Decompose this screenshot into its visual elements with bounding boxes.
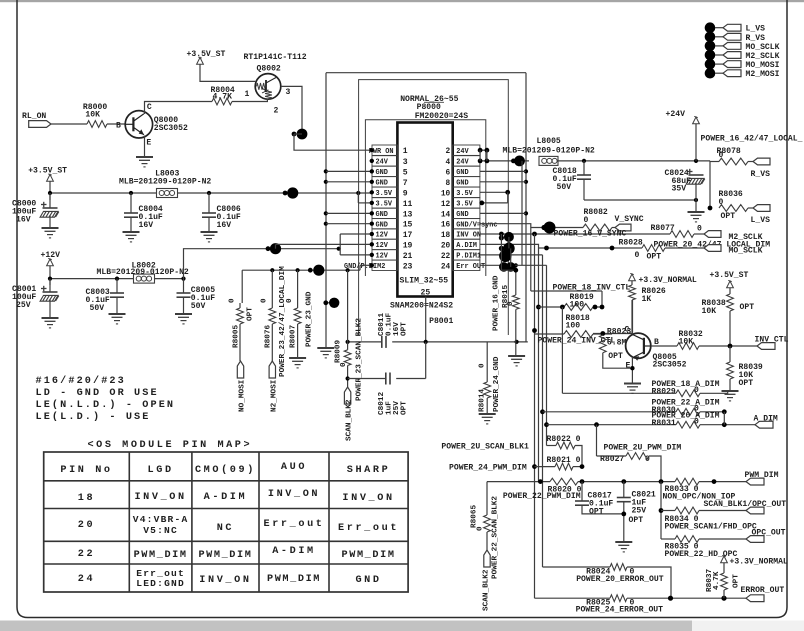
pin 17 label box (12V): [370, 229, 398, 240]
svg-text:R8065: R8065: [471, 505, 479, 528]
note LD - GND OR USE: [36, 388, 159, 399]
svg-text:R8027: R8027: [600, 455, 624, 464]
resistor R8082 0: [583, 208, 615, 231]
resistor R8035 0: [661, 529, 786, 560]
pin 14 label box (GND): [453, 208, 480, 219]
wire 12V rail: [50, 266, 184, 285]
flag PWM_DIM: [745, 471, 779, 485]
wire PWM_DIM main: [487, 479, 675, 484]
svg-text:Q8002: Q8002: [257, 65, 281, 74]
svg-text:10K: 10K: [702, 307, 717, 316]
resistor R8024 0: [576, 564, 671, 599]
wire R8000 to Q8000 base: [107, 123, 125, 125]
ground below Q8005: [624, 384, 641, 394]
wire R8009 top: [347, 270, 349, 350]
svg-text:SLIM_32~55: SLIM_32~55: [400, 277, 449, 286]
svg-text:MO_MOSI: MO_MOSI: [746, 61, 780, 70]
svg-text:0: 0: [697, 225, 702, 234]
ground below R8014: [479, 414, 496, 424]
pin number 16: [441, 222, 451, 230]
svg-text:0: 0: [478, 363, 486, 368]
svg-text:3.5V: 3.5V: [456, 190, 473, 198]
wire pin16 GND/V-sync: [480, 224, 531, 228]
svg-text:POWER_24_ERROR_OUT: POWER_24_ERROR_OUT: [576, 606, 664, 615]
resistor R8026 1K: [629, 281, 666, 334]
pin 8 label box (GND): [453, 177, 480, 188]
resistor R8029 0: [652, 380, 728, 397]
transistor Q8000 2SC3052: [125, 111, 152, 138]
wire bundle V5 pin24->R8022 row: [544, 265, 549, 445]
svg-text:35V: 35V: [672, 185, 687, 194]
pin number 1: [403, 147, 408, 156]
svg-text:16V: 16V: [16, 216, 31, 225]
svg-text:POWER_16_GND: POWER_16_GND: [493, 275, 501, 331]
svg-text:10K: 10K: [85, 111, 100, 120]
svg-text:POWER_23_GND: POWER_23_GND: [306, 291, 314, 347]
pin number 10: [441, 190, 451, 198]
svg-text:2: 2: [446, 148, 451, 156]
capacitor C8001 100uF electrolytic: [12, 279, 59, 318]
svg-text:50V: 50V: [90, 304, 105, 313]
svg-text:10: 10: [441, 190, 451, 198]
ground below C8000: [42, 228, 59, 238]
resistor R8032 10K: [677, 330, 757, 349]
resistor R8021 0: [547, 456, 585, 470]
table row pin 22: [78, 546, 396, 561]
inductor L8002: [97, 261, 189, 283]
svg-text:12V: 12V: [376, 232, 389, 240]
svg-text:20: 20: [78, 520, 95, 531]
wire V_SYNC net: [531, 222, 583, 234]
wire R8005 to flag: [239, 324, 241, 361]
flag SCAN_BLK2 (bottom): [483, 550, 491, 611]
wire +3.5V_ST to Q8002 pin1: [200, 64, 255, 81]
svg-text:POWER_16_V_SYNC: POWER_16_V_SYNC: [554, 230, 627, 239]
svg-text:12V: 12V: [376, 242, 389, 250]
pin number 13: [403, 210, 413, 219]
node +3.5V_ST (R8038): [710, 271, 749, 288]
svg-text:MLB=201209-0120P-N2: MLB=201209-0120P-N2: [119, 178, 211, 187]
pin 20 label box (A.DIM): [453, 239, 480, 250]
wire pin25 drop: [425, 297, 427, 342]
flag ERROR_OUT: [741, 586, 785, 602]
svg-text:MO_SCLK: MO_SCLK: [729, 247, 763, 256]
svg-text:POWER_22_SCAN_BLK2: POWER_22_SCAN_BLK2: [492, 496, 500, 579]
wire Q8000 emitter: [144, 136, 146, 158]
svg-text:0: 0: [229, 298, 237, 303]
pin 19 label box (12V): [370, 239, 398, 250]
resistor R8018 100: [535, 314, 613, 337]
svg-text:R8077: R8077: [651, 224, 675, 233]
wire SCAN_BLK1/OPC net: [659, 482, 787, 539]
module connection dot+flag L_VS: [705, 22, 765, 33]
label FM20020=24S: [415, 112, 469, 121]
wire R8065 to flag: [486, 532, 488, 550]
svg-text:V5:NC: V5:NC: [143, 525, 178, 536]
pin 25 number: [421, 289, 431, 298]
ground below C8006: [201, 232, 218, 242]
wire MO_SCLK net: [539, 246, 643, 251]
svg-text:L_VS: L_VS: [746, 25, 766, 34]
svg-text:POWER_24_PWM_DIM: POWER_24_PWM_DIM: [449, 464, 527, 473]
svg-text:SCAN_BLK2: SCAN_BLK2: [346, 399, 354, 441]
node +24V: [666, 110, 700, 161]
svg-text:50V: 50V: [191, 302, 206, 311]
top window edge bar: [0, 0, 804, 2]
pin number 21: [403, 252, 413, 261]
resistor R8004 4.7K: [211, 86, 235, 105]
wire pin2 24V stub: [478, 148, 490, 153]
wire pin15 GND: [326, 222, 374, 226]
svg-text:PWM_DIM: PWM_DIM: [198, 550, 252, 561]
svg-text:MLB=201209-0120P-N2: MLB=201209-0120P-N2: [503, 147, 595, 156]
svg-text:18: 18: [441, 232, 451, 240]
svg-text:12V: 12V: [376, 253, 389, 261]
wire R8024 net: [543, 566, 611, 568]
svg-text:OPT: OPT: [247, 307, 255, 321]
wire net C8012 horizontal: [348, 342, 426, 379]
flag R_VS: [751, 158, 771, 179]
wire pin2 bundle: [521, 161, 523, 265]
pin number 6: [446, 169, 451, 177]
wire down to R8076: [271, 270, 273, 308]
svg-text:PWM_DIM: PWM_DIM: [267, 574, 321, 585]
svg-text:POWER_24_GND: POWER_24_GND: [493, 356, 501, 412]
svg-text:GND: GND: [456, 179, 468, 187]
resistor R8038 10K OPT: [702, 288, 755, 346]
resistor R8015 0: [502, 285, 519, 310]
wire pin5 GND: [326, 169, 374, 173]
ground below C8024: [688, 212, 705, 222]
svg-text:4: 4: [446, 159, 451, 167]
pin 21 label box (12V): [370, 250, 398, 261]
svg-text:POWER_22_PWM_DIM: POWER_22_PWM_DIM: [503, 492, 581, 501]
outer box NORMAL_26~55 group: [359, 80, 509, 335]
module connection dot+flag MO_MOSI: [705, 59, 780, 70]
svg-text:21: 21: [403, 252, 413, 261]
ground below C8021: [615, 542, 632, 552]
bottom scrollbar track: [692, 621, 804, 631]
svg-text:16V: 16V: [139, 221, 154, 230]
wire R8009 to C8012 row: [346, 366, 350, 388]
pin 13 label box (GND): [370, 208, 398, 219]
svg-text:25: 25: [421, 289, 431, 298]
svg-text:SHARP: SHARP: [347, 465, 391, 476]
resistor R8025 0: [576, 595, 746, 615]
svg-text:18: 18: [78, 493, 95, 504]
net label POWER_24_GND: [493, 356, 501, 412]
pin 11 label box (3.5V): [370, 198, 398, 209]
wire R8031 net: [547, 422, 677, 427]
svg-text:LED:GND: LED:GND: [136, 578, 185, 589]
wire down to R8007: [297, 270, 299, 308]
svg-text:NC: NC: [217, 523, 234, 534]
svg-text:P8000: P8000: [417, 103, 441, 112]
svg-text:1K: 1K: [642, 295, 652, 304]
pin number 1 of Q8002: [245, 90, 250, 99]
svg-text:R8022 0: R8022 0: [547, 435, 581, 444]
wire pin11 3.5V: [358, 201, 374, 205]
pin 4 label box (24V): [453, 156, 480, 167]
svg-text:24: 24: [441, 263, 451, 271]
svg-text:R8029: R8029: [652, 388, 676, 397]
svg-text:14: 14: [441, 211, 451, 219]
svg-text:POWER_18_INV_CTL: POWER_18_INV_CTL: [553, 284, 631, 293]
pin number 2: [446, 148, 451, 156]
svg-text:GND: GND: [376, 211, 388, 219]
connector P8000 body: [397, 123, 452, 297]
wire R8021 net: [449, 464, 555, 473]
svg-text:17: 17: [403, 231, 413, 240]
wire R8022 net: [441, 443, 556, 452]
svg-text:OPT: OPT: [721, 212, 736, 221]
pin number 5: [403, 168, 408, 177]
svg-text:6: 6: [446, 169, 451, 177]
wire pin24 Err_OUT: [480, 262, 547, 272]
svg-text:OPT: OPT: [740, 303, 755, 312]
net label POWER_20_42/47 LOCAL_DIM: [654, 241, 771, 250]
svg-text:C: C: [625, 326, 630, 335]
junction dots on 3.5V rail: [48, 187, 361, 198]
resistor R8027 0: [626, 453, 661, 482]
flag M2_SCLK: [704, 231, 763, 242]
resistor R8005 0 OPT: [229, 298, 255, 348]
flag RL_ON: [22, 112, 51, 127]
svg-text:POWER_20_ERROR_OUT: POWER_20_ERROR_OUT: [576, 575, 664, 584]
svg-text:19: 19: [403, 241, 413, 250]
ground at left GND bus: [317, 348, 334, 358]
svg-text:0: 0: [694, 418, 699, 427]
svg-text:10K: 10K: [679, 338, 694, 347]
svg-text:+3.3V_NORMAL: +3.3V_NORMAL: [730, 558, 788, 567]
svg-text:E: E: [626, 362, 631, 371]
svg-text:POWER_16_42/47_LOCAL_: POWER_16_42/47_LOCAL_: [701, 135, 803, 144]
wire R8004 to Q8002 pin2: [232, 99, 267, 101]
svg-text:GND: GND: [355, 575, 381, 586]
net label POWER_23_GND: [306, 291, 314, 347]
label P8001: [429, 317, 453, 326]
label B of Q8000: [116, 122, 121, 131]
pin number 2 of Q8002: [274, 107, 279, 116]
svg-text:GND/V=sync: GND/V=sync: [456, 221, 497, 229]
svg-text:R8014: R8014: [478, 389, 486, 412]
wire pin14 GND: [480, 212, 526, 214]
wire R8065 chain: [486, 482, 488, 515]
wire pin8 GND: [480, 181, 526, 183]
svg-text:0: 0: [340, 362, 348, 367]
pin 7 label box (GND): [370, 177, 398, 188]
transistor Q8005 2SC3052: [626, 333, 651, 361]
wire R8078 branch vertical: [708, 161, 713, 211]
svg-text:A.DIM: A.DIM: [456, 242, 477, 250]
resistor R8007 0: [286, 298, 301, 348]
svg-text:POWER_2U_PWM_DIM: POWER_2U_PWM_DIM: [604, 444, 682, 453]
svg-text:Err_out: Err_out: [338, 523, 399, 534]
resistor R8009 0: [335, 340, 352, 367]
junction dots on 12V feed: [266, 243, 341, 254]
svg-text:L_VS: L_VS: [751, 216, 771, 225]
flag MO_SCLK: [704, 245, 763, 256]
svg-text:2: 2: [274, 107, 279, 116]
label NORMAL_26~55: [400, 95, 458, 104]
pin number 3 of Q8002: [286, 88, 291, 97]
svg-text:0: 0: [261, 298, 269, 303]
svg-text:SNAM200=N24S2: SNAM200=N24S2: [390, 302, 453, 311]
svg-text:M2_SCLK: M2_SCLK: [746, 52, 780, 61]
svg-text:OPT: OPT: [608, 352, 623, 361]
svg-text:A_DIM: A_DIM: [754, 415, 778, 424]
svg-text:24V: 24V: [456, 159, 469, 167]
svg-text:0: 0: [477, 526, 485, 531]
note LE(N.L.D.) - OPEN: [36, 399, 176, 411]
wire bundle V2 pin18->R8025 row: [532, 234, 537, 598]
svg-text:E: E: [146, 139, 151, 148]
svg-text:GND: GND: [456, 169, 468, 177]
capacitor C8003 0.1uF: [86, 279, 125, 314]
svg-text:GND: GND: [376, 221, 388, 229]
svg-text:B: B: [116, 122, 121, 131]
svg-text:OPT: OPT: [401, 401, 409, 415]
svg-text:OPT: OPT: [739, 379, 754, 388]
net label POWER_22_SCAN_BLK2: [492, 496, 500, 579]
svg-text:A-DIM: A-DIM: [272, 546, 316, 557]
svg-text:POWER_2U_SCAN_BLK1: POWER_2U_SCAN_BLK1: [441, 443, 529, 452]
pin number 7: [403, 179, 408, 188]
label SLIM_32~55: [400, 277, 449, 286]
svg-text:#16/#20/#23: #16/#20/#23: [36, 375, 126, 387]
transistor Q8002 (RT1P141C-T112): [255, 74, 281, 100]
svg-text:GND: GND: [456, 211, 468, 219]
svg-text:N2_MOSI: N2_MOSI: [270, 379, 278, 412]
node +3.5V_ST (rail): [28, 167, 67, 182]
svg-text:P.DIM1: P.DIM1: [456, 253, 481, 261]
module connection dot+flag MO_SCLK: [705, 41, 780, 52]
svg-text:PWM_DIM: PWM_DIM: [745, 471, 779, 480]
net label POWER_16_GND: [493, 275, 501, 331]
svg-text:16V: 16V: [217, 221, 232, 230]
svg-text:15: 15: [403, 221, 413, 230]
svg-text:12: 12: [441, 201, 451, 209]
svg-text:PWM_DIM: PWM_DIM: [134, 550, 188, 561]
svg-text:0: 0: [719, 151, 724, 160]
svg-text:R_VS: R_VS: [751, 170, 771, 179]
svg-text:ERROR_OUT: ERROR_OUT: [741, 586, 785, 595]
svg-text:C: C: [147, 103, 152, 112]
svg-text:OPT: OPT: [589, 508, 604, 517]
wire R8076 to flag: [271, 324, 273, 361]
svg-text:0: 0: [635, 251, 640, 260]
svg-text:OPT: OPT: [733, 574, 741, 588]
pin 24 label box (Err OUT): [453, 260, 485, 271]
label C of Q8000: [147, 103, 152, 112]
inner box FM20020 group: [365, 120, 485, 276]
table title OS MODULE PIN MAP: [88, 440, 253, 451]
wire pin12 3.5V: [479, 192, 507, 205]
pin 3 label box (24V): [370, 156, 398, 167]
capacitor C8004 0.1uF: [124, 193, 163, 232]
wire POWER_18_INV_CTL: [531, 284, 631, 293]
svg-text:3: 3: [286, 88, 291, 97]
capacitor C8018 0.1uF 50V: [553, 161, 592, 200]
svg-text:OPT: OPT: [401, 322, 409, 336]
capacitor C8000 100uF electrolytic: [12, 193, 59, 228]
bottom scrollbar thumb: [0, 621, 692, 631]
resistor R8022 0: [547, 435, 583, 467]
wire PWR_ON to connector pin 1: [294, 134, 372, 150]
svg-text:LE(N.L.D.) - OPEN: LE(N.L.D.) - OPEN: [36, 399, 176, 411]
svg-text:GND: GND: [376, 169, 388, 177]
label E of Q8000: [146, 139, 151, 148]
resistor R8019 100: [539, 293, 605, 310]
svg-text:R8076: R8076: [265, 325, 273, 348]
svg-text:MLB=201209-0120P-N2: MLB=201209-0120P-N2: [97, 268, 189, 277]
svg-text:6.8M: 6.8M: [607, 338, 627, 347]
svg-text:100: 100: [570, 301, 585, 310]
ground below Q8000: [136, 157, 153, 167]
label SNAM200=N24S2: [390, 302, 453, 311]
pin number 17: [403, 231, 413, 240]
wire Q8005 emitter: [630, 357, 634, 384]
svg-text:R8021 0: R8021 0: [547, 456, 581, 465]
pin 18 label box (INV ON): [453, 229, 481, 240]
wire 24V pair vertical: [480, 150, 487, 161]
wire A_DIM column: [723, 412, 725, 425]
svg-text:P8001: P8001: [429, 317, 453, 326]
wire R8007 to ground: [297, 324, 299, 358]
module connection dot+flag M2_MOSI: [705, 68, 780, 79]
svg-text:M2_MOSI: M2_MOSI: [746, 70, 780, 79]
module connection dot+flag R_VS: [705, 32, 765, 43]
wire R8027 net: [597, 425, 682, 464]
svg-text:R8005: R8005: [233, 325, 241, 348]
svg-text:+3.5V_ST: +3.5V_ST: [710, 271, 749, 280]
wire net SCAN_BLK2 horizontal: [346, 340, 528, 344]
wire bundle V3 pin20->R8019 row: [536, 248, 541, 482]
resistor R8030 0: [652, 399, 727, 416]
net label POWER_23_SCAN_BLK2: [356, 318, 364, 401]
label RT1P141C-T112: [244, 53, 307, 62]
wire pin6 GND: [480, 170, 526, 172]
svg-text:11: 11: [403, 200, 413, 209]
net label POWER_24_INV_CTL: [538, 337, 616, 346]
svg-text:0: 0: [584, 216, 589, 225]
pin number 11: [403, 200, 413, 209]
svg-text:2SC3052: 2SC3052: [653, 361, 687, 370]
svg-text:+3.3V_NORMAL: +3.3V_NORMAL: [639, 276, 697, 285]
resistor R8034 0: [661, 507, 757, 531]
resistor R8036 0 OPT to L_VS: [719, 190, 754, 221]
net label POWER_16_V_SYNC: [554, 230, 627, 239]
wire pin22 P.DIM1: [480, 250, 543, 262]
flag A_DIM: [754, 415, 778, 429]
pin 22 label box (P.DIM1): [453, 250, 481, 261]
wire R8030 net: [543, 411, 677, 413]
wire net P.DIM2 horizontal: [242, 265, 360, 276]
svg-text:INV_ON: INV_ON: [134, 492, 186, 503]
pin number 15: [403, 221, 413, 230]
svg-text:Err_out: Err_out: [264, 519, 325, 530]
svg-text:+3.5V_ST: +3.5V_ST: [187, 50, 226, 59]
svg-text:V4:VBR-A: V4:VBR-A: [133, 514, 189, 525]
wire GND loop right vertical: [524, 73, 528, 342]
svg-text:1: 1: [245, 90, 250, 99]
flag OPC_OUT: [746, 536, 764, 543]
ground below C8001: [42, 318, 59, 328]
svg-text:LD - GND OR USE: LD - GND OR USE: [36, 388, 159, 399]
svg-text:R8031: R8031: [652, 419, 676, 428]
svg-text:20: 20: [441, 242, 451, 250]
svg-text:16: 16: [441, 222, 451, 230]
